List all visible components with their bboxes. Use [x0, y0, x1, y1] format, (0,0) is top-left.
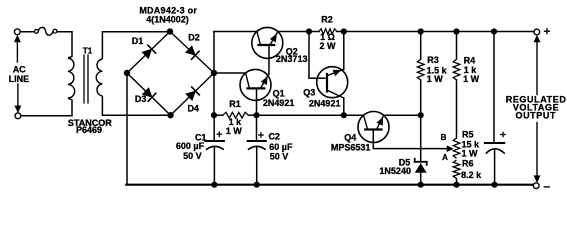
- transformer T1 secondary winding: [96, 59, 102, 96]
- svg-text:R2: R2: [321, 14, 333, 24]
- label C1: [195, 133, 207, 143]
- wire: [57, 32, 72, 58]
- wire bridge edge D4: [171, 73, 215, 115]
- resistor R3: [417, 32, 424, 116]
- terminal output +: [534, 29, 540, 35]
- wire: [214, 72, 246, 74]
- label 1 W: [226, 126, 243, 136]
- label OUTPUT: [515, 111, 556, 121]
- wire Q3 emitter to R2 right: [343, 32, 345, 70]
- label AC LINE: [9, 65, 30, 84]
- label Q1: [273, 89, 285, 99]
- label 60 uF: [269, 142, 293, 152]
- wire bridge edge D2: [170, 32, 214, 74]
- label D3: [135, 94, 147, 104]
- transformer T1 primary winding: [68, 58, 75, 98]
- node bridge right: [211, 70, 217, 76]
- wire Q4 base: [373, 130, 448, 149]
- label 1 ohm: [320, 32, 335, 42]
- resistor R2: [309, 29, 344, 34]
- label 600 uF: [176, 141, 205, 151]
- node: [491, 28, 497, 34]
- wire: [20, 31, 34, 33]
- transistor Q2: [252, 27, 283, 58]
- transistor Q4: [358, 112, 389, 143]
- AC input bottom arrow: [15, 84, 21, 112]
- label 1.5 k: [427, 66, 448, 76]
- wire: [420, 115, 422, 161]
- wire: [21, 98, 72, 116]
- svg-text:P6469: P6469: [76, 125, 102, 135]
- svg-text:MPS6531: MPS6531: [331, 142, 371, 152]
- wire: [278, 31, 309, 33]
- wire Q3 collector down: [343, 98, 345, 115]
- label -: [544, 186, 549, 188]
- label A: [442, 153, 448, 162]
- capacitor C1: [205, 115, 224, 185]
- label Q3: [303, 88, 315, 98]
- wire: [257, 114, 344, 116]
- node: [418, 182, 424, 188]
- node: [453, 28, 459, 34]
- svg-text:2N4921: 2N4921: [309, 98, 341, 108]
- label VOLTAGE: [513, 102, 559, 112]
- terminal AC input bottom: [15, 113, 21, 119]
- output capacitor: [485, 32, 505, 185]
- svg-text:1 W: 1 W: [427, 74, 444, 84]
- zener D5: [415, 159, 427, 185]
- svg-text:R5: R5: [462, 129, 474, 139]
- svg-text:1 W: 1 W: [463, 74, 480, 84]
- svg-text:A: A: [442, 153, 448, 162]
- svg-text:D2: D2: [188, 33, 200, 43]
- svg-text:1 W: 1 W: [461, 149, 478, 159]
- node: [254, 182, 260, 188]
- svg-text:60 µF: 60 µF: [269, 142, 293, 152]
- output + arrow: [534, 35, 540, 94]
- label 2N4921: [263, 98, 295, 108]
- svg-text:4(1N4002): 4(1N4002): [146, 15, 189, 25]
- AC input top arrow: [14, 35, 20, 62]
- svg-text:R1: R1: [229, 99, 241, 109]
- svg-text:C2: C2: [268, 132, 280, 142]
- C2 polarity +: [259, 133, 263, 137]
- svg-text:T1: T1: [83, 47, 93, 56]
- wire: [344, 31, 534, 33]
- output capacitor polarity +: [501, 132, 505, 136]
- svg-text:600 µF: 600 µF: [176, 141, 205, 151]
- node: [306, 28, 312, 34]
- label 4(1N4002): [146, 15, 189, 25]
- node bridge top: [167, 28, 173, 34]
- label 2N3713: [276, 54, 308, 64]
- fuse F1: [35, 27, 57, 35]
- label R1: [229, 99, 241, 109]
- wire: [214, 31, 257, 33]
- svg-text:R6: R6: [462, 159, 474, 169]
- capacitor C2: [248, 115, 266, 185]
- label R5: [462, 129, 474, 139]
- label 15 k: [462, 140, 481, 150]
- R5 wiper arrow: [447, 146, 453, 152]
- label Q2: [286, 46, 298, 56]
- label D5: [399, 158, 411, 168]
- svg-text:50 V: 50 V: [183, 151, 202, 161]
- node: [211, 182, 217, 188]
- label 8.2 k: [461, 170, 482, 180]
- label REGULATED: [506, 94, 567, 104]
- terminal AC input top: [14, 29, 20, 35]
- label +: [545, 29, 550, 34]
- svg-text:2N3713: 2N3713: [276, 54, 308, 64]
- label D2: [188, 33, 200, 43]
- wire: [102, 96, 170, 115]
- svg-text:B: B: [441, 133, 447, 142]
- svg-text:D3: D3: [135, 94, 147, 104]
- label MPS6531: [331, 142, 371, 152]
- resistor R1: [214, 112, 257, 118]
- label B: [441, 133, 447, 142]
- wire: [126, 73, 533, 185]
- node: [418, 112, 424, 118]
- svg-text:Q4: Q4: [344, 132, 356, 142]
- node: [492, 182, 498, 188]
- diode D2: [186, 46, 199, 60]
- transistor Q3: [317, 67, 348, 98]
- wire: [213, 32, 215, 116]
- wire bridge edge D1: [127, 32, 170, 74]
- wire R2 left to Q3 base: [309, 32, 326, 79]
- node: [418, 28, 424, 34]
- label Q3 2N4921: [309, 98, 341, 108]
- svg-text:2N4921: 2N4921: [263, 98, 295, 108]
- label R3 1 W: [427, 74, 444, 84]
- potentiometer R5: [453, 138, 460, 158]
- diode D1: [142, 45, 156, 59]
- label D1: [132, 36, 144, 46]
- diode D3: [142, 88, 156, 102]
- label C2: [268, 132, 280, 142]
- node: [211, 112, 217, 118]
- svg-text:D4: D4: [187, 104, 199, 114]
- resistor R6: [453, 160, 460, 185]
- label R4: [464, 56, 476, 66]
- svg-text:2 W: 2 W: [319, 41, 336, 51]
- node: [341, 112, 347, 118]
- label 2 W: [319, 41, 336, 51]
- wire: [344, 114, 364, 116]
- svg-text:1 W: 1 W: [226, 126, 243, 136]
- node: [253, 112, 259, 118]
- node: [341, 28, 347, 34]
- wire: [102, 32, 170, 59]
- label Q4: [344, 132, 356, 142]
- label R3: [427, 55, 439, 65]
- wire Q1 base: [256, 88, 258, 115]
- wire Q1 emitter to Q2 base: [268, 45, 270, 74]
- terminal output -: [533, 183, 539, 189]
- label STANCOR P6469: [68, 118, 112, 135]
- svg-text:R3: R3: [427, 55, 439, 65]
- svg-text:D1: D1: [132, 36, 144, 46]
- label D4: [187, 104, 199, 114]
- output - arrow: [534, 123, 540, 183]
- node bridge bottom: [167, 112, 173, 118]
- node: [453, 182, 459, 188]
- label 50 V: [183, 151, 202, 161]
- wire Q4 emitter: [384, 114, 421, 116]
- label 50 V: [270, 152, 289, 162]
- svg-text:8.2 k: 8.2 k: [461, 170, 482, 180]
- label T1: [83, 47, 93, 56]
- label 1 k: [229, 117, 243, 127]
- diode D4: [186, 87, 200, 101]
- node bridge left: [124, 70, 130, 76]
- label R4 1 k: [464, 65, 478, 75]
- label R2: [321, 14, 333, 24]
- svg-text:50 V: 50 V: [270, 152, 289, 162]
- svg-text:OUTPUT: OUTPUT: [515, 111, 556, 121]
- label R4 1 W: [463, 74, 480, 84]
- C1 polarity +: [217, 132, 221, 136]
- svg-text:1N5240: 1N5240: [379, 166, 411, 176]
- resistor R4: [453, 32, 460, 139]
- label 1N5240: [379, 166, 411, 176]
- svg-text:Q3: Q3: [303, 88, 315, 98]
- svg-text:LINE: LINE: [9, 74, 30, 84]
- label R5 1 W: [461, 149, 478, 159]
- label R6: [462, 159, 474, 169]
- label MDA942-3 or: [139, 5, 197, 15]
- transistor Q1: [240, 69, 271, 100]
- transformer T1 core: [84, 55, 88, 103]
- wire bridge edge D3: [127, 73, 171, 115]
